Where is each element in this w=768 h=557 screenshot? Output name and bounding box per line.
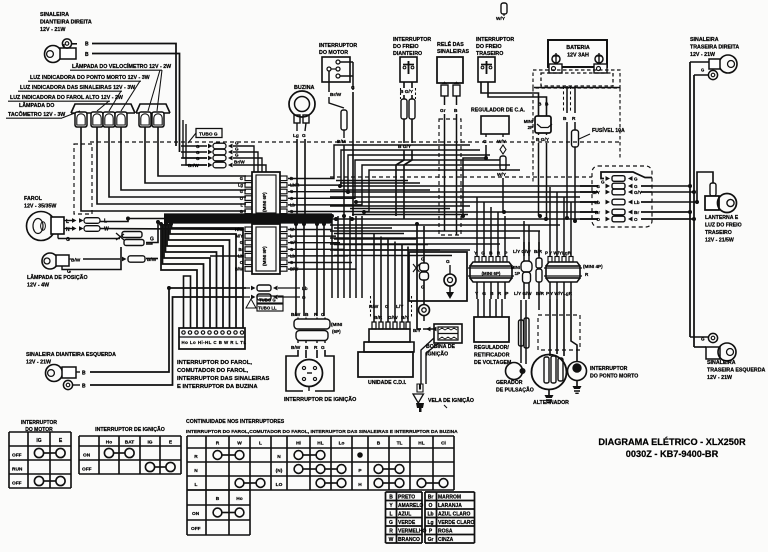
wire battery B <box>566 86 568 113</box>
svg-text:Ci: Ci <box>441 441 446 447</box>
CDI pin lugs <box>372 322 376 329</box>
svg-text:G: G <box>240 240 243 245</box>
svg-text:VERDE CLARO: VERDE CLARO <box>438 520 475 526</box>
svg-text:12V - 21W: 12V - 21W <box>40 27 66 33</box>
svg-text:RUN: RUN <box>12 467 23 473</box>
svg-text:L: L <box>195 482 198 488</box>
callout line signals <box>109 91 121 111</box>
svg-text:G: G <box>235 141 239 146</box>
svg-text:B/R: B/R <box>536 291 545 296</box>
svg-text:B: B <box>563 116 567 122</box>
svg-text:ROSA: ROSA <box>438 528 453 534</box>
svg-text:INTERRUPTOR: INTERRUPTOR <box>319 43 357 49</box>
svg-text:12V - 4W: 12V - 4W <box>27 283 49 289</box>
svg-text:REGULADOR DE C.A.: REGULADOR DE C.A. <box>471 108 525 114</box>
wire front right signal to harness <box>92 44 176 147</box>
svg-text:B: B <box>216 496 220 502</box>
svg-text:MINI: MINI <box>524 119 533 124</box>
svg-text:H/W: H/W <box>235 227 243 232</box>
svg-text:ON: ON <box>83 453 91 459</box>
harness dashed boundary mid <box>330 176 592 178</box>
svg-text:G: G <box>196 156 200 161</box>
continuity circles LO <box>316 479 325 488</box>
harness vertical 3 <box>343 216 345 298</box>
svg-text:G: G <box>446 259 450 265</box>
svg-text:G: G <box>196 150 200 155</box>
wire mini9p right 0 <box>288 229 332 231</box>
svg-text:W: W <box>104 227 109 233</box>
MINI 1P wires <box>523 242 525 261</box>
svg-text:DIANTEIRA DIREITA: DIANTEIRA DIREITA <box>40 20 92 26</box>
svg-text:LARANJA: LARANJA <box>438 503 462 509</box>
svg-text:Lb: Lb <box>634 200 640 205</box>
tail feed vertical 1 <box>689 62 691 337</box>
svg-text:ALTERNADOR: ALTERNADOR <box>533 400 569 406</box>
svg-text:B G/Y: B G/Y <box>400 89 414 95</box>
harness fan line 5 <box>330 218 598 220</box>
wire stop switch BrW <box>328 71 330 92</box>
ignition table circles on <box>104 448 113 457</box>
svg-text:FUSÍVEL 10A: FUSÍVEL 10A <box>592 126 625 134</box>
wire mini2p GY <box>546 133 548 135</box>
wire lower connector up 3 <box>490 207 492 256</box>
tail connector row O <box>580 218 598 220</box>
svg-text:LÂMPADA DE POSIÇÃO: LÂMPADA DE POSIÇÃO <box>27 274 88 281</box>
svg-text:G: G <box>634 177 638 182</box>
svg-text:(MINI 6P): (MINI 6P) <box>262 192 267 212</box>
neutral switch wire <box>571 299 577 361</box>
harness subband line 6 <box>334 255 452 257</box>
tubo LL label <box>246 299 256 308</box>
bullet connector row G <box>181 145 207 147</box>
MINI 4P pins bottom <box>549 282 551 299</box>
ground chain eyelet <box>419 305 430 316</box>
callout line tachometer <box>62 111 80 118</box>
wire mini6p right 3 <box>288 160 500 198</box>
svg-text:Br/W: Br/W <box>188 163 199 168</box>
svg-text:LUZ INDICADORA DAS SINALEIRAS: LUZ INDICADORA DAS SINALEIRAS 12V - 3W <box>20 85 135 91</box>
harness fan line 3 <box>356 201 598 203</box>
svg-text:G/Y: G/Y <box>634 190 642 195</box>
svg-text:B/W: B/W <box>71 258 81 264</box>
svg-text:MINI: MINI <box>511 265 520 270</box>
svg-text:INTERRUPTOR: INTERRUPTOR <box>590 366 628 372</box>
AC regulator <box>481 116 509 134</box>
wire speedo socket 1 <box>145 127 246 183</box>
svg-text:Gr: Gr <box>440 108 446 114</box>
svg-text:TUBO LL: TUBO LL <box>258 306 277 311</box>
wire tubo feed 4 <box>186 124 207 165</box>
svg-text:(N): (N) <box>276 468 283 474</box>
connector MINI 6P left <box>252 172 280 216</box>
harness trunk line 4 <box>164 219 332 221</box>
svg-text:G: G <box>701 68 704 73</box>
instrument socket housing 2 <box>136 104 170 113</box>
wire headlight L <box>64 220 72 222</box>
svg-text:DO FREIO: DO FREIO <box>476 44 502 50</box>
svg-text:R: R <box>216 441 220 447</box>
wire rear brake 1 <box>481 82 539 116</box>
battery feet <box>549 64 562 73</box>
svg-text:O: O <box>596 217 600 222</box>
tail feed vertical 2 <box>693 75 695 347</box>
bullet connector row Br/W <box>181 164 207 166</box>
svg-text:2P: 2P <box>528 125 533 130</box>
svg-text:N: N <box>277 454 281 460</box>
alternator <box>532 355 567 390</box>
svg-text:REGULADOR/: REGULADOR/ <box>474 345 509 351</box>
svg-text:Lg: Lg <box>293 133 299 139</box>
svg-text:RETIFICADOR: RETIFICADOR <box>474 353 510 359</box>
wire mini9p right 2 <box>288 242 340 244</box>
wire tail Br <box>652 211 690 213</box>
svg-text:DE VOLTAGEM: DE VOLTAGEM <box>474 360 511 366</box>
svg-text:M/Y: M/Y <box>236 234 244 239</box>
svg-text:ON: ON <box>192 511 200 517</box>
junction dots <box>330 214 333 217</box>
harness vertical 1 <box>331 216 333 298</box>
battery tray dashed <box>541 73 613 86</box>
engine stop switch table <box>8 432 10 488</box>
svg-text:SINALEIRAS: SINALEIRAS <box>437 49 470 55</box>
wire rear left signal 2 <box>694 346 706 348</box>
svg-text:(MINI: (MINI <box>331 322 342 327</box>
harness fan line 6 <box>330 196 580 198</box>
wire lower connector up 9 <box>549 187 551 256</box>
rear right turn signal lamp <box>719 55 737 73</box>
wire tail G <box>652 185 690 187</box>
ignition switch wires <box>286 350 303 391</box>
alternator dashed box <box>538 315 580 350</box>
svg-text:Ho: Ho <box>236 496 242 502</box>
svg-text:B/M: B/M <box>337 139 346 145</box>
svg-text:LUZ INDICADORA DO FAROL ALTO 1: LUZ INDICADORA DO FAROL ALTO 12V - 2W <box>10 95 123 101</box>
svg-text:G: G <box>351 85 355 91</box>
svg-text:SINALEIRA: SINALEIRA <box>707 360 736 366</box>
spark plug lead <box>421 338 434 384</box>
tail connector dashed box <box>592 166 652 227</box>
wire to ignition R <box>316 224 318 316</box>
wire mini2p B <box>538 133 540 135</box>
wire position BW to harness <box>146 258 158 260</box>
svg-text:HL: HL <box>317 441 323 447</box>
tail connector row G/Y <box>580 191 598 193</box>
callout line high beam <box>97 101 109 111</box>
svg-text:12V - 21W: 12V - 21W <box>26 360 51 366</box>
turn signal relay <box>437 57 463 83</box>
svg-text:SINALEIRA DIANTEIRA ESQUERDA: SINALEIRA DIANTEIRA ESQUERDA <box>26 352 116 358</box>
color legend grid right <box>424 492 426 543</box>
svg-text:L/Y: L/Y <box>396 304 404 310</box>
svg-text:G: G <box>196 144 200 149</box>
wire relay B <box>456 96 458 105</box>
wire signal-ind socket <box>109 127 246 197</box>
wire lower connector up 1 <box>476 197 478 256</box>
frame ground box <box>409 252 467 301</box>
callout line neutral <box>121 81 140 111</box>
harness fan line 11 <box>330 249 470 251</box>
svg-text:INTERRUPTOR DO FAROL,: INTERRUPTOR DO FAROL, <box>177 360 252 366</box>
wire left signal B1 <box>76 371 80 373</box>
svg-text:Br: Br <box>428 494 434 500</box>
ignition coil <box>434 324 462 343</box>
svg-text:DIANTEIRO: DIANTEIRO <box>393 51 422 57</box>
wire highbeam socket <box>97 127 246 204</box>
wire tubo row4 to conn <box>250 165 266 172</box>
svg-text:DO PONTO MORTO: DO PONTO MORTO <box>590 373 638 379</box>
svg-text:R: R <box>314 312 318 318</box>
svg-text:VERDE: VERDE <box>398 520 416 526</box>
inline connector B/M <box>341 110 347 130</box>
color legend grid left <box>385 492 387 543</box>
rear brake switch <box>478 57 495 82</box>
svg-text:INTERRUPTOR: INTERRUPTOR <box>21 420 57 426</box>
connector MINI 6P lower <box>470 262 512 266</box>
wire horn G <box>305 123 306 131</box>
svg-text:Br: Br <box>595 210 600 215</box>
svg-text:DIAGRAMA ELÉTRICO - XLX250R: DIAGRAMA ELÉTRICO - XLX250R <box>598 436 746 447</box>
svg-text:GERADOR: GERADOR <box>496 380 523 386</box>
wire lower connector up 10 <box>556 192 558 256</box>
wire mini9p right 3 <box>288 248 344 250</box>
wire headlight G <box>57 234 59 239</box>
indicator socket 4 <box>115 112 127 127</box>
continuity table grid <box>186 436 188 490</box>
tail light <box>705 196 719 210</box>
svg-text:B/W: B/W <box>291 345 301 351</box>
wire mini6p right 4 <box>288 165 510 205</box>
wire speedo socket 2 <box>158 127 246 176</box>
svg-text:(6P): (6P) <box>332 329 341 334</box>
svg-text:LÂMPADA DO: LÂMPADA DO <box>19 102 54 109</box>
svg-text:Ho Lo Hi-HL C B W R L TL: Ho Lo Hi-HL C B W R L TL <box>182 340 247 345</box>
svg-text:AMARELO: AMARELO <box>398 503 423 509</box>
svg-text:BAT: BAT <box>125 440 135 446</box>
horn sub table <box>186 490 188 535</box>
svg-text:Lo: Lo <box>339 441 345 447</box>
harness dashed box left <box>74 144 92 214</box>
harness subband line 4 <box>334 244 428 246</box>
svg-text:B: B <box>389 494 393 500</box>
pulse generator wires <box>520 300 522 363</box>
front brake inline connectors <box>401 99 407 119</box>
connector MINI 2P <box>535 116 551 133</box>
svg-text:B G/Y: B G/Y <box>536 137 550 143</box>
svg-text:(MINI 9P): (MINI 9P) <box>262 246 267 266</box>
svg-text:R: R <box>389 528 393 534</box>
wire front brake to harness <box>403 119 405 143</box>
continuity circles L <box>235 479 244 488</box>
svg-text:B/W: B/W <box>235 267 243 272</box>
svg-text:LUZ INDICADORA DO PONTO MORTO: LUZ INDICADORA DO PONTO MORTO 12V - 3W <box>30 75 150 81</box>
svg-text:UNIDADE C.D.I.: UNIDADE C.D.I. <box>368 380 407 386</box>
svg-text:P Y W/YLgR: P Y W/YLgR <box>545 251 572 256</box>
svg-text:O: O <box>429 503 433 509</box>
svg-text:G: G <box>240 189 243 194</box>
wire to ignition B <box>303 224 305 316</box>
wire horn Lg <box>296 123 298 131</box>
harness fan line 7 <box>330 224 560 226</box>
wire mini6p right 0 <box>288 145 470 179</box>
harness line 6 <box>352 214 468 216</box>
svg-text:G: G <box>150 237 154 243</box>
harness vertical 6 <box>361 216 363 298</box>
svg-text:Ho: Ho <box>106 440 112 446</box>
svg-text:Br/W: Br/W <box>234 160 245 165</box>
svg-text:MARROM: MARROM <box>438 494 461 500</box>
wire tubo row1 to conn <box>250 146 254 172</box>
svg-text:TRASEIRO: TRASEIRO <box>476 51 503 57</box>
wire relay Gr <box>444 96 446 105</box>
svg-text:N: N <box>194 468 198 474</box>
svg-text:VERMELHO: VERMELHO <box>398 528 426 534</box>
wire mini9p right 6 <box>288 268 356 270</box>
neutral switch ground <box>576 381 578 386</box>
ground chain connector <box>420 263 429 271</box>
ground chain wire <box>423 226 425 263</box>
svg-text:TRASEIRO: TRASEIRO <box>705 230 732 236</box>
svg-text:TL: TL <box>397 441 403 447</box>
svg-text:OFF: OFF <box>82 467 92 473</box>
headlight lamp <box>27 212 56 241</box>
svg-text:W/Y: W/Y <box>497 172 507 178</box>
wire to ignition B/W <box>295 224 297 316</box>
svg-text:R: R <box>572 116 576 122</box>
svg-text:DE PULSAÇÃO: DE PULSAÇÃO <box>496 387 534 394</box>
wire mini6p right 5 <box>288 170 520 212</box>
front right turn signal lamp <box>45 46 62 63</box>
svg-text:PRETO: PRETO <box>398 494 415 500</box>
instrument socket 5 <box>139 112 151 127</box>
svg-text:TRASEIRA DIREITA: TRASEIRA DIREITA <box>690 44 739 50</box>
svg-text:G: G <box>634 184 638 189</box>
headlight N bullet <box>72 226 77 231</box>
wire lower connector up 2 <box>483 202 485 256</box>
svg-text:Lb: Lb <box>594 200 600 205</box>
svg-text:INTERRUPTOR DO FAROL,COMUTADOR: INTERRUPTOR DO FAROL,COMUTADOR DO FAROL,… <box>186 429 458 435</box>
frame ground arrow <box>449 286 451 292</box>
wire front right signal to harness 2 <box>92 54 180 153</box>
svg-text:(MINI 4P): (MINI 4P) <box>583 264 603 269</box>
svg-text:G: G <box>321 312 325 318</box>
svg-text:SINALEIRA: SINALEIRA <box>690 37 719 43</box>
svg-text:AZUL CLARO: AZUL CLARO <box>438 511 471 517</box>
ignition connector <box>294 319 330 329</box>
wire tail GY <box>652 191 694 193</box>
harness subband line 2 <box>334 233 404 235</box>
wire tail Lb <box>652 172 713 202</box>
svg-text:INTERRUPTOR DAS SINALEIRAS: INTERRUPTOR DAS SINALEIRAS <box>177 376 269 382</box>
pulse generator <box>506 363 523 380</box>
harness subband line 1 <box>334 227 392 229</box>
position BW connector <box>122 257 127 262</box>
spark plug <box>417 384 423 392</box>
headlight G connector <box>122 232 142 238</box>
bullet connector row G <box>181 151 207 153</box>
wire battery R fuse <box>574 86 576 113</box>
svg-text:12V 3AH: 12V 3AH <box>567 53 589 59</box>
svg-text:0030Z - KB7-9400-BR: 0030Z - KB7-9400-BR <box>626 449 719 459</box>
wire mini6p right 2 <box>288 155 490 192</box>
wire tubo row3 to conn <box>250 158 262 172</box>
svg-text:VELA DE IGNIÇÃO: VELA DE IGNIÇÃO <box>428 397 474 404</box>
horn sub table circles <box>213 508 222 517</box>
svg-text:HL: HL <box>418 441 424 447</box>
svg-text:Lb: Lb <box>302 286 308 291</box>
wire AC reg G <box>485 134 487 137</box>
wire rear left signal 1 <box>690 336 708 338</box>
wire AC reg WY <box>502 134 504 137</box>
svg-text:B/W: B/W <box>291 312 301 318</box>
tail light bulb connector <box>710 183 716 196</box>
wire front brake GY <box>411 82 413 88</box>
wire front brake B <box>403 82 405 88</box>
wire lower connector up 6 <box>523 221 525 256</box>
svg-text:L: L <box>240 202 243 207</box>
svg-text:H: H <box>358 482 362 488</box>
svg-text:Lg: Lg <box>238 183 244 188</box>
wire rear right signal 1 <box>690 61 709 63</box>
alternator ground <box>548 390 550 395</box>
svg-text:G/Y: G/Y <box>592 190 600 195</box>
svg-text:E INTERRUPTOR DA BUZINA: E INTERRUPTOR DA BUZINA <box>177 384 258 390</box>
svg-text:CONTINUIDADE NOS INTERRUPTORES: CONTINUIDADE NOS INTERRUPTORES <box>186 419 285 425</box>
svg-text:TACÔMETRO 12V - 3W: TACÔMETRO 12V - 3W <box>8 110 65 118</box>
voltage regulator pins <box>477 299 479 317</box>
harness trunk line 2 <box>164 215 332 217</box>
svg-text:LANTERNA E: LANTERNA E <box>705 215 739 221</box>
wire to ignition G <box>323 224 325 316</box>
connector MINI 4P lower <box>546 262 580 266</box>
instrument socket housing 1 <box>71 104 135 113</box>
continuity circles (N) <box>294 465 303 474</box>
CDI pin wires <box>373 234 375 322</box>
continuity circles H2 <box>417 479 426 488</box>
wire neutral socket <box>121 127 246 190</box>
harness fan line 8 <box>330 230 540 232</box>
continuity circles N mid <box>294 451 303 460</box>
engine stop switch <box>322 57 350 82</box>
frame ground eyelet <box>444 274 456 286</box>
wire tail O <box>652 218 694 220</box>
headlight L bullet <box>72 218 77 223</box>
svg-text:12V - 21W: 12V - 21W <box>690 52 715 58</box>
harness subband line 5 <box>334 249 440 251</box>
wire coil BY <box>417 224 421 329</box>
wire headlight W <box>64 228 72 230</box>
indicator socket 1 <box>75 112 87 127</box>
wire tubo feed 3 <box>183 120 207 158</box>
svg-text:TUBO G: TUBO G <box>199 131 218 137</box>
svg-text:G: G <box>483 139 487 145</box>
svg-text:G: G <box>596 184 600 189</box>
svg-text:12V - 35/35W: 12V - 35/35W <box>24 204 56 210</box>
svg-text:TRASEIRA ESQUERDA: TRASEIRA ESQUERDA <box>707 367 766 373</box>
svg-text:CINZA: CINZA <box>438 537 454 543</box>
wire handlebar 2 <box>170 224 236 328</box>
harness trunk line 1 <box>164 213 332 215</box>
svg-text:LUZ DO FREIO: LUZ DO FREIO <box>705 223 742 229</box>
harness line 4 <box>340 182 420 184</box>
wire lower connector up 12 <box>570 202 572 256</box>
wire tubo row2 to conn <box>250 152 258 172</box>
rear left turn signal lamp <box>708 333 717 342</box>
svg-text:IG: IG <box>36 438 41 444</box>
wire lower connector up 11 <box>563 197 565 256</box>
callout line speedometer <box>148 70 160 111</box>
engine stop table circles 1 <box>34 448 43 457</box>
svg-text:B: B <box>305 312 309 318</box>
